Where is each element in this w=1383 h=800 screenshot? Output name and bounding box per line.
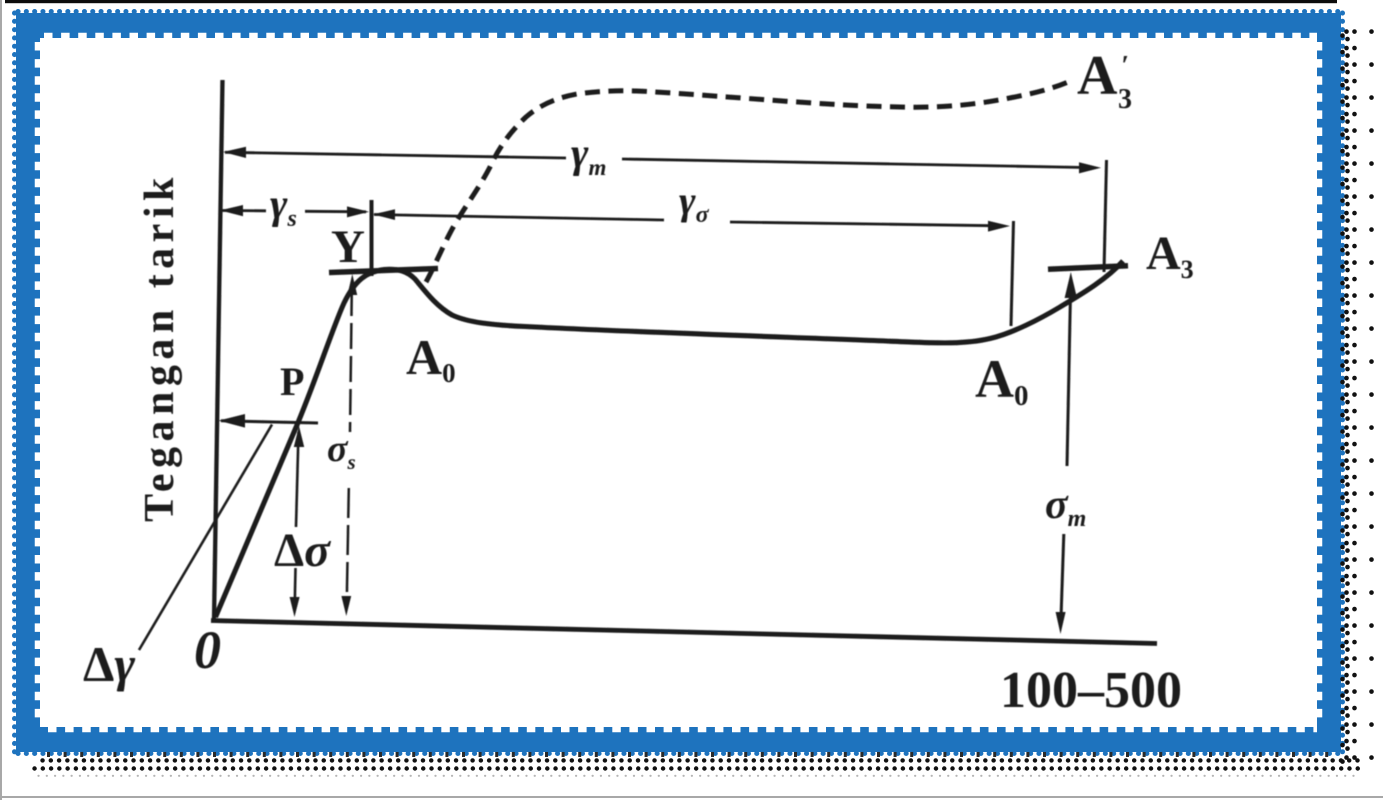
delta-sigma measure line upper: [296, 432, 299, 527]
P level arrow line: [221, 421, 318, 423]
delta-sigma down arrowhead: [290, 597, 300, 617]
gamma-m dimension line left segment: [225, 152, 566, 158]
modulus offset line to delta-gamma: [139, 425, 272, 651]
blue frame inner white notches bottom: [48, 727, 1317, 733]
gamma-s left arrowhead: [220, 205, 243, 216]
svg-text:P: P: [280, 359, 304, 404]
gamma-m right arrowhead: [1079, 162, 1101, 173]
gamma-s dimension line left segment: [222, 209, 266, 212]
gamma-sigma end vertical: [1011, 221, 1014, 326]
svg-text:Y: Y: [331, 221, 365, 273]
gamma-m left arrowhead: [223, 147, 246, 158]
top black bar: [5, 0, 1337, 3]
bottom grey hairline: [0, 796, 1383, 798]
gamma-s dimension line right segment: [305, 210, 366, 213]
gamma-m dimension line right segment: [622, 159, 1092, 168]
svg-text:0: 0: [194, 620, 221, 680]
svg-text:100–500: 100–500: [1000, 662, 1182, 719]
blue frame inner white notches left: [35, 42, 41, 725]
sigma-s up arrowhead: [347, 274, 357, 295]
P arrowhead: [219, 414, 246, 428]
sigma-s measure dashed upper: [350, 290, 352, 432]
main stress-strain curve: [216, 261, 1124, 617]
gamma-sigma dimension line right segment: [730, 222, 1000, 226]
A3 level tick: [1048, 266, 1128, 270]
right halftone dot column 2: [1352, 32, 1357, 763]
right halftone dot column 3 sparse: [1369, 32, 1374, 763]
blue frame inner white notches top: [44, 33, 1317, 39]
bottom halftone dot row 2: [35, 766, 1364, 770]
blue frame outer teeth right: [1340, 13, 1345, 752]
bottom halftone dark ticks under frame: [47, 752, 1341, 757]
vertical tick at yield: [370, 200, 374, 276]
sigma-s measure dashed lower: [347, 488, 349, 599]
gamma-sigma left arrowhead: [373, 209, 395, 220]
gamma-sigma dimension line left segment: [374, 215, 664, 221]
blue frame inner white notches right: [1317, 42, 1323, 725]
y-axis: [214, 80, 223, 621]
gamma-m end vertical: [1104, 160, 1107, 272]
blue frame outer teeth top: [18, 9, 1341, 14]
left grey hairline: [0, 0, 2, 800]
delta-sigma up arrowhead: [294, 426, 304, 447]
delta-sigma measure line lower: [293, 568, 296, 602]
sigma-m measure line upper: [1067, 292, 1071, 466]
svg-text:Δγ: Δγ: [83, 636, 135, 692]
sigma-m up arrowhead: [1065, 272, 1077, 298]
bottom halftone faint row 3: [39, 775, 1356, 777]
blue frame outer teeth left: [12, 13, 17, 752]
sigma-s down arrowhead: [341, 596, 351, 616]
dashed necking curve to A3': [426, 82, 1068, 282]
sigma-m measure line lower: [1061, 534, 1064, 612]
bottom halftone dot row 1: [43, 758, 1364, 762]
right halftone dot column zigzag A: [1340, 36, 1345, 763]
gamma-s right arrowhead: [347, 206, 369, 217]
gamma-sigma right arrowhead: [988, 221, 1010, 232]
sigma-m down arrowhead: [1056, 612, 1066, 634]
right halftone dot column zigzag B: [1345, 39, 1350, 762]
svg-text:Δσ: Δσ: [274, 524, 331, 577]
x-axis: [211, 621, 1157, 644]
blue frame outer teeth bottom: [18, 751, 1341, 756]
yield tick Y: [329, 269, 438, 273]
right halftone dot column 1: [1344, 32, 1349, 763]
svg-text:Tegangan tarik: Tegangan tarik: [137, 172, 183, 522]
